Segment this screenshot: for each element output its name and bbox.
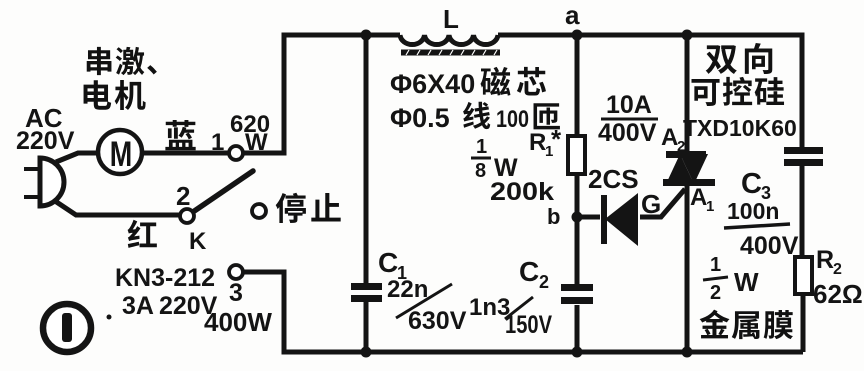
svg-text:C: C bbox=[741, 168, 762, 200]
svg-text:C: C bbox=[378, 247, 398, 278]
svg-text:a: a bbox=[565, 0, 580, 30]
svg-text:L: L bbox=[443, 4, 459, 34]
svg-text:Φ6X40: Φ6X40 bbox=[390, 69, 475, 99]
svg-text:2: 2 bbox=[710, 282, 721, 304]
svg-text:3: 3 bbox=[229, 279, 243, 307]
svg-text:630V: 630V bbox=[408, 307, 467, 335]
svg-text:TXD10K60: TXD10K60 bbox=[683, 115, 797, 141]
svg-text:10A: 10A bbox=[606, 91, 652, 119]
svg-text:R: R bbox=[816, 246, 834, 274]
svg-text:400W: 400W bbox=[204, 307, 272, 337]
svg-text:200k: 200k bbox=[490, 178, 554, 206]
svg-text:A: A bbox=[661, 124, 678, 151]
svg-text:1: 1 bbox=[710, 254, 721, 276]
svg-text:A: A bbox=[690, 184, 707, 211]
svg-text:KN3-212: KN3-212 bbox=[115, 264, 215, 292]
svg-text:1: 1 bbox=[211, 129, 224, 156]
svg-text:W: W bbox=[245, 129, 268, 156]
svg-text:400V: 400V bbox=[598, 119, 657, 147]
svg-text:150V: 150V bbox=[505, 311, 552, 339]
svg-text:100: 100 bbox=[496, 106, 529, 133]
svg-text:C: C bbox=[519, 256, 539, 287]
svg-text:100n: 100n bbox=[727, 198, 779, 224]
svg-text:1: 1 bbox=[476, 136, 487, 158]
svg-text:220V: 220V bbox=[16, 127, 75, 155]
svg-text:22n: 22n bbox=[387, 276, 428, 303]
svg-text:400V: 400V bbox=[740, 232, 799, 260]
svg-text:M: M bbox=[110, 135, 132, 174]
svg-text:W: W bbox=[734, 267, 759, 297]
svg-text:K: K bbox=[189, 228, 207, 255]
svg-text:Φ0.5: Φ0.5 bbox=[390, 103, 450, 133]
svg-text:2: 2 bbox=[176, 181, 190, 211]
svg-text:2: 2 bbox=[833, 261, 842, 278]
svg-text:b: b bbox=[547, 204, 560, 229]
svg-text:8: 8 bbox=[475, 160, 486, 182]
svg-text:R: R bbox=[529, 129, 546, 156]
svg-text:1: 1 bbox=[706, 198, 714, 215]
svg-text:62Ω: 62Ω bbox=[813, 279, 863, 309]
svg-text:G: G bbox=[641, 189, 661, 219]
svg-text:2: 2 bbox=[539, 272, 549, 292]
svg-text:2CS: 2CS bbox=[588, 164, 639, 194]
